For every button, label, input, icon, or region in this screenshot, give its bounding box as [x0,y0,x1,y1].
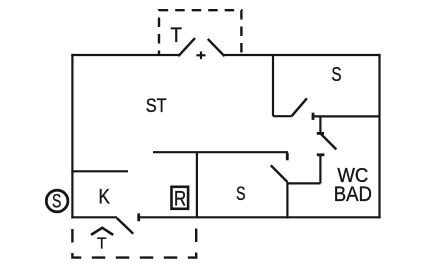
svg-text:BAD: BAD [334,183,372,206]
svg-text:T: T [97,235,107,252]
svg-text:S: S [331,63,341,86]
svg-text:S: S [236,183,245,205]
svg-text:S: S [52,191,61,213]
svg-text:ST: ST [146,95,167,117]
svg-text:K: K [99,185,111,209]
svg-text:T: T [170,24,182,47]
svg-text:R: R [174,186,186,210]
